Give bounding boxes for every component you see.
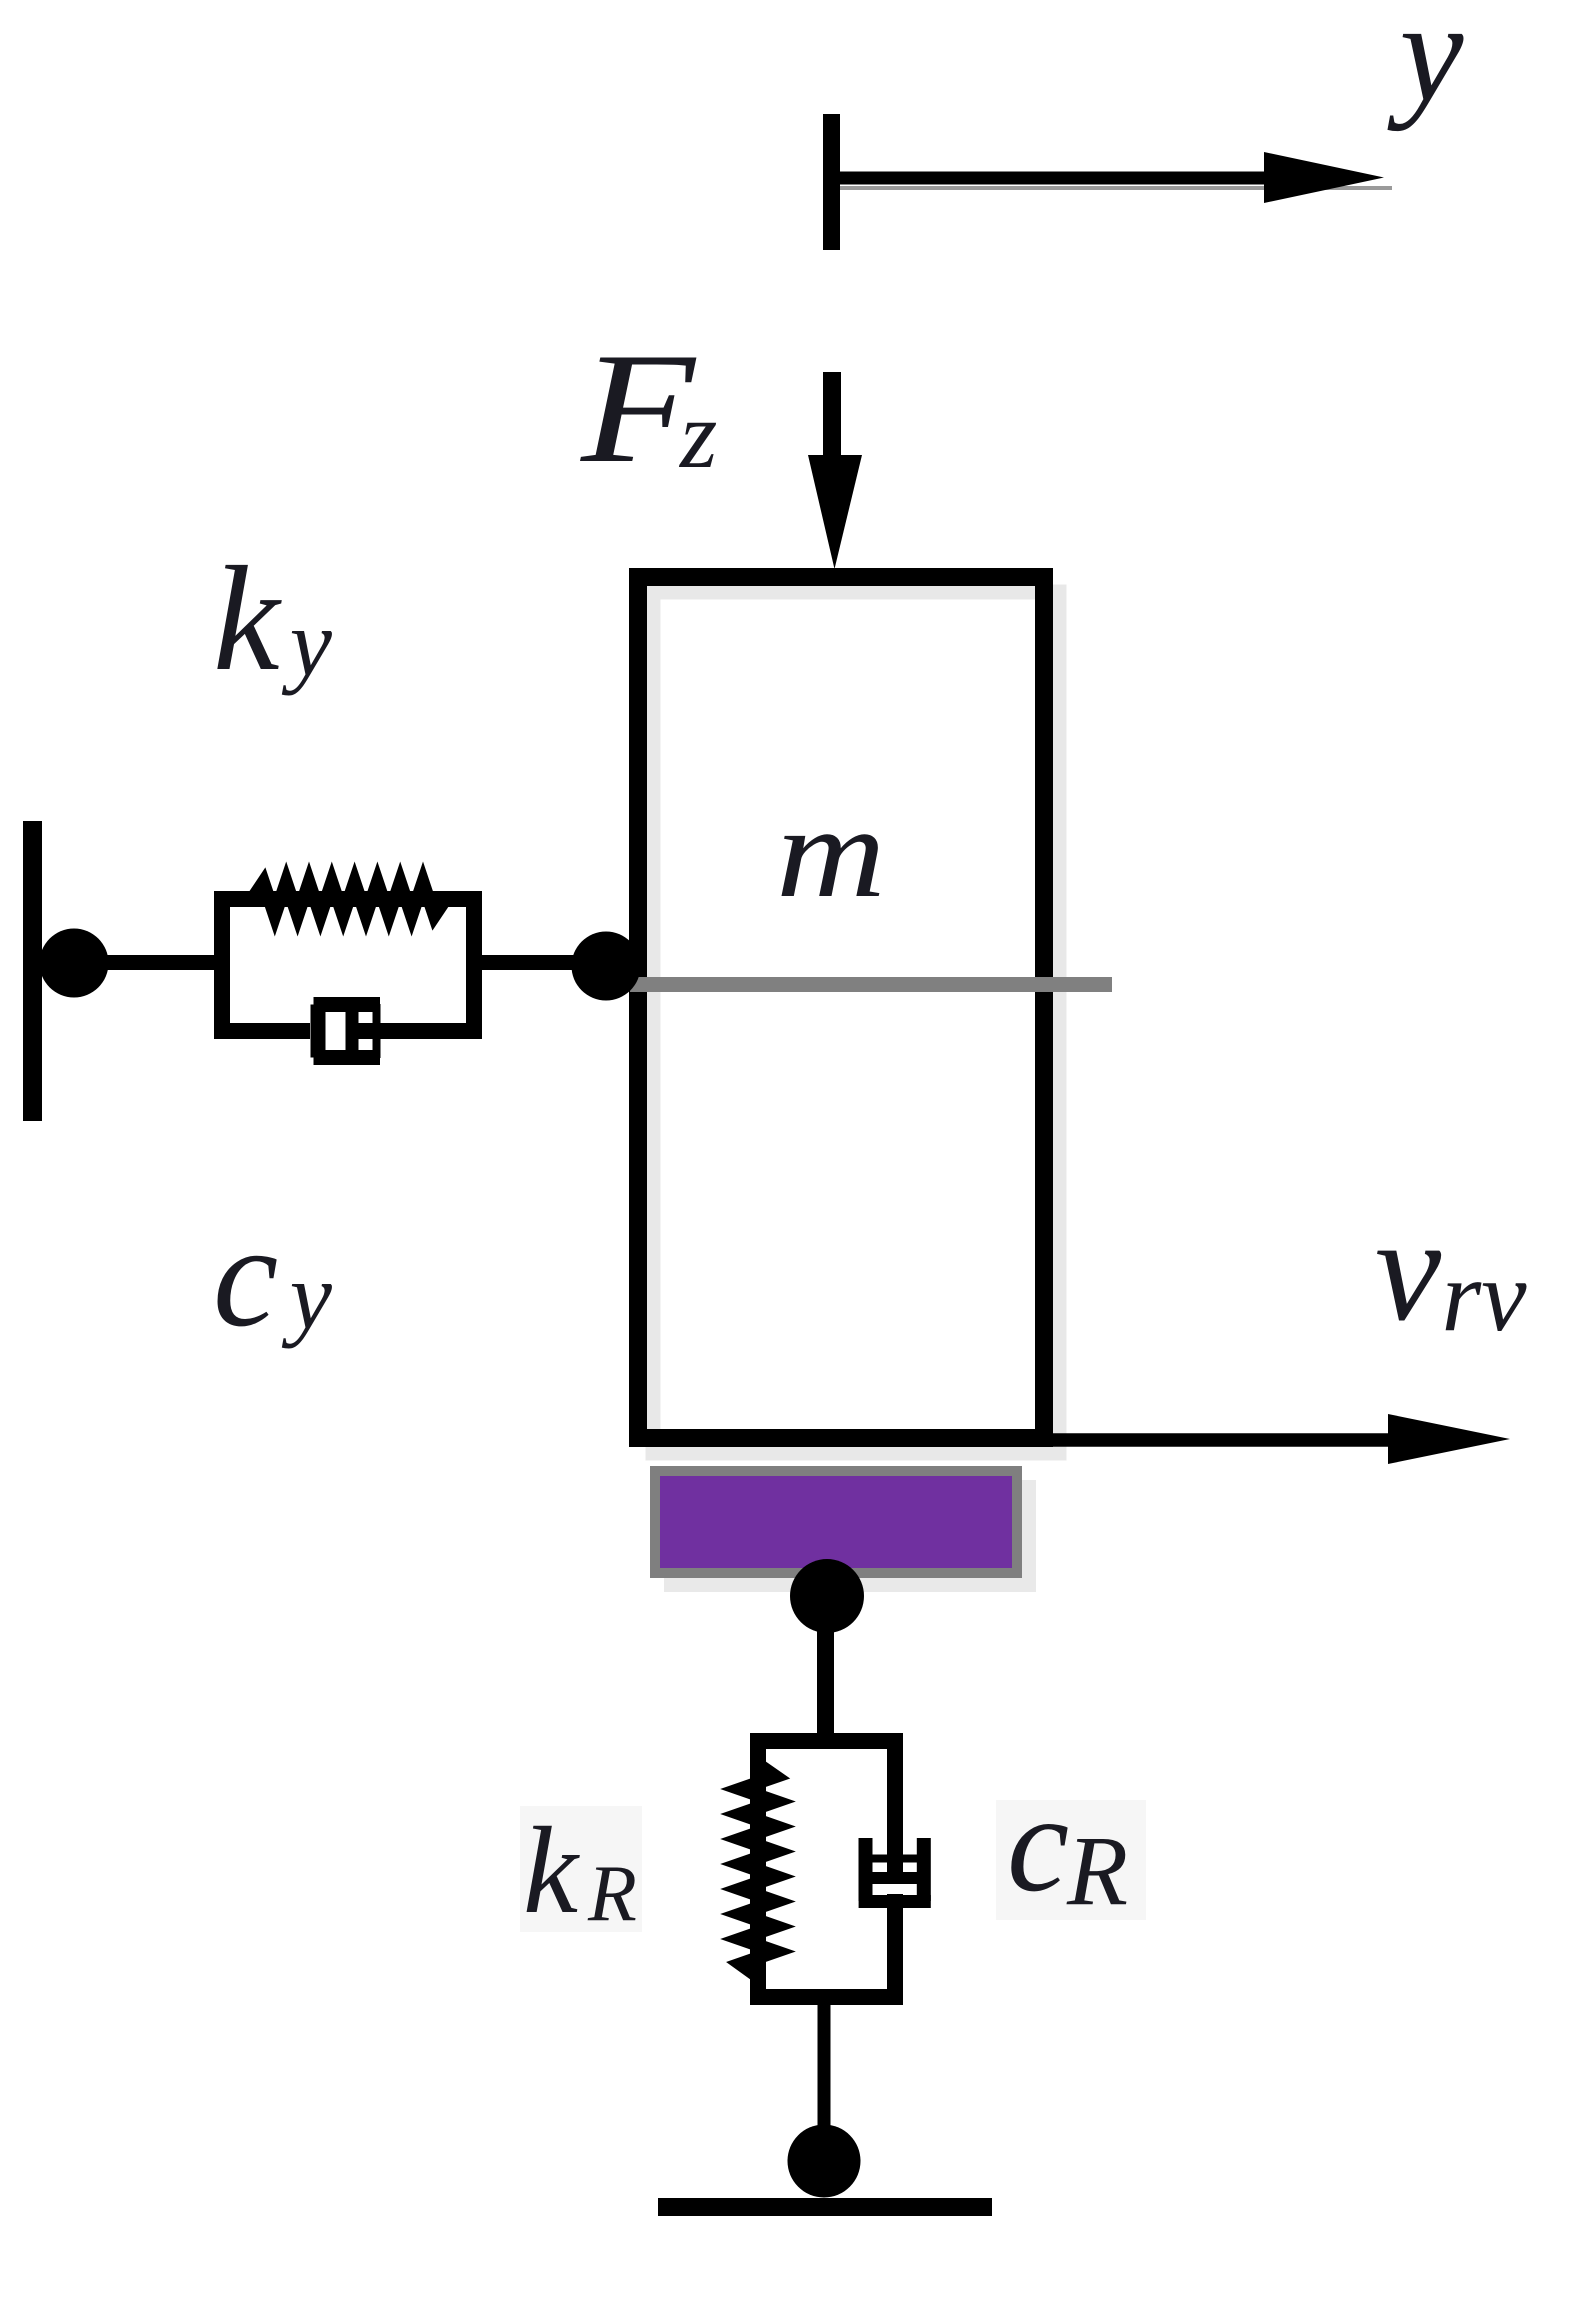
svg-text:m: m — [776, 780, 886, 925]
svg-text:c: c — [213, 1194, 278, 1357]
svg-text:v: v — [1375, 1187, 1442, 1352]
svg-text:rv: rv — [1442, 1240, 1528, 1353]
svg-text:k: k — [523, 1802, 580, 1939]
svg-text:c: c — [1007, 1766, 1069, 1921]
svg-text:z: z — [678, 381, 717, 488]
svg-text:y: y — [1387, 0, 1464, 132]
svg-text:k: k — [213, 536, 282, 702]
svg-text:y: y — [282, 590, 333, 696]
svg-text:R: R — [1066, 1815, 1128, 1926]
svg-text:R: R — [587, 1850, 637, 1938]
svg-text:y: y — [282, 1243, 333, 1349]
svg-text:F: F — [580, 321, 697, 496]
